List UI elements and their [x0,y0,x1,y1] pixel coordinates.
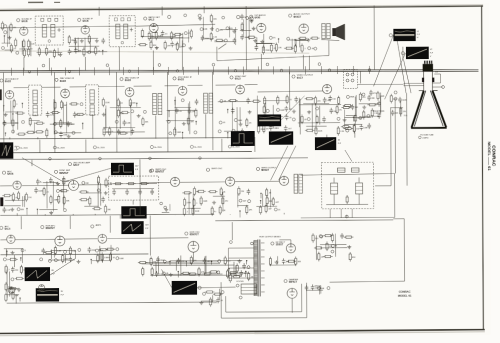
junction [245,271,246,272]
wire [0,68,478,72]
terminal E60 [367,114,370,117]
resistor R56 [103,127,105,137]
resistor R103 [89,196,91,206]
wire [150,37,183,39]
wire [12,106,14,133]
wire [69,45,99,47]
terminal E39 [167,120,170,123]
terminal E100 [21,249,24,252]
ground [164,208,168,212]
terminal E102 [41,225,44,228]
svg-text:.1: .1 [25,250,27,252]
terminal E123 [250,242,253,245]
wire [329,209,331,217]
wire [258,116,283,118]
junction [3,105,4,106]
wire [0,330,485,334]
resistor R89 [359,92,361,102]
tube 6AV6 V4 [257,23,266,32]
terminal E144 [328,69,331,72]
resistor R144 [181,272,191,274]
wire [210,261,212,264]
svg-text:6AL5: 6AL5 [235,77,242,80]
ground [104,191,108,195]
terminal E105 [48,259,51,262]
terminal E96 [256,167,259,170]
capacitor C32 [322,116,326,122]
ground [198,17,202,21]
terminal E55 [351,73,354,76]
svg-text:.01: .01 [269,193,272,195]
terminal E116 [218,260,221,263]
svg-text:V2: V2 [430,49,432,51]
terminal E93 [206,168,209,171]
tube 6SN7 V20 [188,241,199,252]
wire [2,122,18,124]
terminal E126 [284,279,287,282]
wire [13,255,15,267]
wire [333,178,335,183]
tube 6SN7 V15 [225,177,234,186]
terminal E74 [222,16,225,19]
ground [80,39,84,43]
waveform photo W8 [111,163,134,176]
tube 6AG5 V8 [125,88,134,97]
resistor R46 [26,131,36,133]
waveform photo W3 [231,131,255,146]
wire [39,140,41,153]
capacitor C19 [123,120,127,126]
ground [232,29,236,33]
junction [26,208,27,209]
capacitor C45 [150,189,154,195]
resistor R81 [314,96,316,106]
terminal E99 [0,226,3,229]
svg-text:.1: .1 [304,48,306,50]
wire [42,86,61,88]
capacitor C10 [240,14,244,20]
svg-text:.05: .05 [321,257,324,259]
wire [134,85,152,87]
wire [269,189,271,207]
resistor R37 [284,47,294,49]
resistor R47 [60,100,62,110]
wire [406,93,408,185]
wire [0,332,485,336]
wire [336,66,338,74]
capacitor C33 [323,97,327,103]
resistor R41 [13,99,15,109]
wire [105,105,107,128]
junction [260,193,261,194]
wire [53,251,55,258]
capacitor C51 [177,258,181,264]
junction [6,251,7,252]
coil L10 [209,93,213,113]
wire [239,211,241,217]
resistor R184 [363,110,365,120]
wire [345,116,371,118]
svg-text:.1: .1 [7,259,9,261]
svg-text:6SN7GT: 6SN7GT [45,227,55,230]
wire [150,274,241,276]
terminal E45 [219,121,222,124]
resistor R185 [400,106,402,116]
wire [320,286,322,294]
wire [482,5,484,330]
svg-text:6AG5: 6AG5 [60,80,67,83]
resistor R28 [215,39,225,41]
wire [380,93,382,113]
resistor R126 [266,188,268,198]
terminal E71 [190,145,193,148]
wire [0,185,12,187]
wire [19,48,32,50]
wire [9,137,11,139]
resistor R113 [193,187,195,197]
wire [240,29,251,31]
wire [227,133,229,139]
junction [273,116,274,117]
wire [263,34,265,51]
ground [239,122,243,126]
resistor R3 [10,23,12,33]
junction [178,271,179,272]
capacitor C63 [377,101,381,107]
resistor R29 [247,36,257,38]
wire [165,85,179,87]
wire [299,38,301,47]
resistor R166 [236,263,238,273]
capacitor C27 [269,125,273,131]
wire [64,255,66,263]
terminal E30 [53,122,56,125]
svg-text:6AC7: 6AC7 [297,77,304,80]
resistor R59 [120,111,130,113]
wire [246,261,248,265]
svg-text:.01: .01 [72,259,75,261]
wire [0,158,308,160]
terminal E110 [116,257,119,260]
wire [16,213,18,216]
wire [245,272,247,278]
resistor R30 [241,22,243,32]
terminal E44 [218,130,221,133]
resistor R18 [173,33,183,35]
resistor R2 [10,43,12,53]
terminal E80 [198,286,201,289]
ground [102,113,106,117]
resistor R125 [246,205,248,215]
junction [195,121,196,122]
tube 6AU6 V1 [20,27,28,35]
wire [329,219,404,282]
capacitor C50 [239,270,243,276]
svg-text:220K: 220K [105,102,110,104]
wire [265,102,267,119]
resistor R21 [148,31,150,41]
waveform photo W12 [36,288,60,302]
svg-text:.05: .05 [289,117,292,119]
resistor R167 [248,272,250,282]
wire [315,103,317,131]
wire [22,68,24,76]
resistor R112 [193,198,195,208]
wire [112,188,154,190]
wire [239,107,241,123]
wire [31,160,33,166]
terminal E120 [239,296,242,299]
svg-text:.05: .05 [179,111,182,113]
svg-text:6AV6: 6AV6 [254,17,260,20]
wire [321,40,339,41]
tube 6AL5 V17 [7,235,15,243]
wire [256,205,277,207]
wire [269,133,271,138]
junction [19,297,20,298]
svg-text:.05: .05 [311,48,314,50]
junction [239,210,240,211]
terminal E43 [232,129,235,132]
svg-text:PICTURE TUBE: PICTURE TUBE [420,135,434,137]
capacitor C31 [294,96,298,102]
wire [229,267,254,269]
terminal E2 [4,25,7,28]
wire [50,68,52,76]
resistor R92 [12,192,14,202]
wire [355,95,357,116]
terminal E67 [16,146,19,149]
wire [4,133,6,136]
svg-text:.01: .01 [46,192,49,194]
wire [351,209,353,217]
ground [248,110,252,114]
wire [315,235,317,260]
wire [433,86,443,88]
wire [50,258,76,275]
svg-text:6AL5: 6AL5 [4,228,11,231]
wire [231,222,233,240]
svg-text:.01: .01 [120,103,123,105]
resistor R132 [8,258,18,260]
svg-text:.047: .047 [327,100,331,102]
terminal E136 [394,91,397,94]
svg-text:150: 150 [332,98,335,100]
resistor R154 [198,267,200,277]
resistor R104 [105,178,107,188]
resistor R129 [265,204,267,214]
resistor R23 [176,42,178,52]
wire [393,218,404,220]
wire [177,272,179,278]
terminal E16 [224,39,227,42]
waveform photo W2 [406,47,429,60]
terminal E88 [68,163,71,166]
resistor R63 [174,127,176,137]
terminal E35 [131,110,134,113]
wire [235,265,237,277]
wire [5,249,7,257]
tube 1B3 V23 [286,244,295,253]
wire [404,82,424,84]
wire [64,67,66,75]
wire [110,182,157,184]
ground [49,211,53,215]
wire [72,214,74,216]
wire [179,33,181,48]
terminal E115 [162,272,165,275]
resistor R139 [109,253,111,263]
svg-text:6SN7GT: 6SN7GT [155,170,165,173]
wire [119,215,121,218]
wire [188,193,190,214]
junction [260,200,261,201]
svg-text:390K: 390K [350,97,355,99]
wire [0,26,135,28]
terminal E26 [11,130,14,133]
terminal E140 [128,70,131,73]
wire [108,67,110,75]
wire [22,157,64,182]
wire [23,57,25,71]
resistor R17 [164,40,166,50]
junction [90,259,91,260]
svg-text:5%: 5% [339,110,342,112]
waveform photo W11 [25,267,51,281]
resistor R102 [92,207,102,209]
wire [175,261,177,271]
wire [205,256,207,274]
wire [90,260,92,264]
wire [373,35,393,86]
wire [141,36,176,38]
svg-text:B+ 255V: B+ 255V [232,147,240,149]
ground [169,273,173,277]
wire [270,146,288,181]
junction [211,261,212,262]
terminal E137 [394,97,397,100]
wire [181,40,183,70]
resistor R140 [97,254,99,264]
terminal E133 [419,136,422,139]
wire [46,181,48,208]
svg-text:6SN7GT: 6SN7GT [59,172,69,175]
terminal E132 [327,287,330,290]
wire [29,119,40,121]
wire [394,100,396,173]
resistor R13 [88,34,90,44]
DC restorer dashed box [343,69,357,88]
wire [140,182,170,184]
terminal E118 [11,278,14,281]
resistor R32 [262,45,264,55]
ground [95,39,99,43]
resistor R175 [344,236,354,238]
IF transformer can T1 [35,16,63,45]
wire [69,216,71,229]
wire [239,137,241,138]
capacitor C21 [195,99,199,105]
wire [150,37,190,39]
wire [36,209,38,214]
wire [139,159,141,214]
capacitor C17 [131,129,135,135]
wire [50,123,73,125]
junction [20,257,21,258]
resistor R40 [15,112,25,114]
capacitor C4 [68,49,72,55]
wire [235,180,279,182]
transformer taps [261,243,265,292]
resistor R146 [188,273,198,275]
wire [391,107,403,109]
svg-text:6W4GT: 6W4GT [289,281,298,284]
capacitor C2 [74,39,78,45]
wire [320,247,347,249]
resistor R173 [349,252,351,262]
wire [10,68,12,76]
wire [432,74,440,83]
wire [103,126,135,128]
terminal E15 [226,27,229,30]
wire [64,238,97,240]
wire [229,277,254,279]
ground [67,134,71,138]
CRT funnel [411,90,446,127]
terminal E73 [184,14,187,17]
capacitor C53 [203,258,207,264]
wire [92,115,94,139]
wire [30,41,32,56]
svg-text:B+ 255V: B+ 255V [194,147,202,149]
svg-text:100K: 100K [280,110,285,112]
terminal E29 [80,103,83,106]
capacitor C12 [3,120,7,126]
resistor R54 [142,117,144,127]
capacitor C54 [155,271,159,277]
wire [243,19,245,36]
wire [4,248,23,250]
svg-text:MODEL —— 61: MODEL —— 61 [487,142,492,172]
resistor R75 [263,105,265,115]
wire [5,111,21,113]
wire [182,67,184,75]
capacitor C29 [329,108,333,114]
resistor R105 [104,204,106,214]
wire [115,72,117,152]
wire [294,40,296,47]
ground [307,110,311,114]
wire [170,259,242,261]
wire [157,256,159,274]
resistor R94 [2,194,12,196]
wire [17,111,19,129]
svg-text:6SN7GT: 6SN7GT [190,233,200,236]
wire [2,73,4,153]
ground [76,260,80,264]
resistor R68 [228,99,238,101]
terminal E50 [337,117,340,120]
wire [295,39,297,48]
wire [44,214,46,216]
wire [214,41,233,43]
capacitor C48 [41,248,45,254]
resistor R45 [29,117,31,127]
terminal E149 [199,157,202,160]
resistor R10 [45,46,47,56]
ground [56,182,60,186]
terminal E61 [42,64,45,67]
